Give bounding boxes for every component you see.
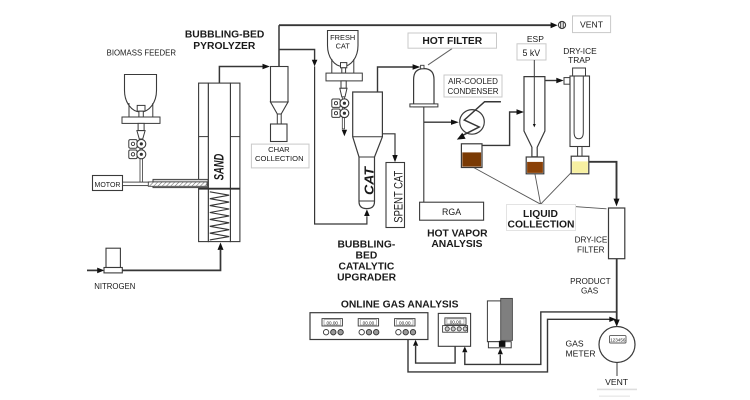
wire ESP outlet to dry-ice trap bbox=[545, 80, 557, 82]
fresh cat feed arrow bbox=[342, 130, 347, 137]
wire cyclone riser bbox=[278, 25, 280, 66]
gas analyzer unit 2 bbox=[438, 313, 470, 346]
wire product gas filter to gas meter bbox=[616, 259, 618, 320]
spent cat box bbox=[386, 163, 405, 228]
svg-text:PYROLYZER: PYROLYZER bbox=[193, 41, 256, 52]
wire analyzer1 return to gas meter bbox=[408, 319, 610, 372]
nitrogen cylinder bbox=[106, 248, 120, 267]
svg-text:BED: BED bbox=[356, 250, 378, 261]
label box VENT (top) bbox=[573, 16, 611, 33]
gas meter vent line bbox=[616, 363, 618, 377]
label box CHAR COLLECTION bbox=[251, 144, 309, 168]
svg-text:ANALYSIS: ANALYSIS bbox=[431, 239, 482, 250]
pyrolyzer jacket right wall bbox=[230, 83, 240, 242]
fresh cat stem bonnet bbox=[341, 63, 347, 68]
pyrolyzer jacket left wall bbox=[199, 83, 209, 242]
wire product gas branch to analyzer loop bbox=[465, 312, 617, 365]
svg-text:HOT VAPOR: HOT VAPOR bbox=[427, 228, 488, 239]
svg-text:5 kV: 5 kV bbox=[522, 48, 540, 58]
svg-text:ONLINE GAS ANALYSIS: ONLINE GAS ANALYSIS bbox=[341, 300, 459, 311]
gas chromatograph bbox=[487, 301, 502, 342]
svg-text:00.00: 00.00 bbox=[326, 320, 338, 325]
svg-text:VENT: VENT bbox=[580, 20, 604, 30]
fresh cat valve pair 1 bbox=[332, 99, 340, 107]
svg-text:VENT: VENT bbox=[605, 377, 629, 387]
cyclone separator bbox=[271, 67, 289, 103]
trap collection bottle bbox=[571, 156, 589, 174]
label box 5 kV bbox=[517, 44, 546, 60]
wire nitrogen inlet bbox=[87, 269, 98, 271]
svg-text:00.00: 00.00 bbox=[399, 320, 411, 325]
pyrolyzer inner column bbox=[208, 83, 230, 242]
label box AIR-COOLED CONDENSER bbox=[444, 75, 502, 97]
motor M1 bbox=[93, 176, 123, 191]
gas meter bbox=[599, 327, 635, 363]
dry-ice trap stem bbox=[577, 147, 579, 157]
biomass feeder stem bbox=[140, 139, 142, 184]
dry-ice trap neck bbox=[573, 68, 586, 76]
svg-text:CAT: CAT bbox=[363, 166, 377, 195]
svg-text:ESP: ESP bbox=[527, 34, 544, 44]
gas analyzer unit 1 bbox=[310, 313, 428, 340]
svg-text:HOT FILTER: HOT FILTER bbox=[422, 36, 482, 47]
fresh cat stem bbox=[342, 97, 344, 129]
biomass feeder crossbar bbox=[122, 117, 160, 123]
fresh cat taper bbox=[340, 88, 347, 97]
pyrolyzer flange lines bbox=[199, 136, 209, 138]
svg-text:COLLECTION: COLLECTION bbox=[255, 154, 304, 163]
wire trap bottle to dry-ice filter bbox=[589, 162, 617, 199]
label box HOT FILTER bbox=[408, 33, 497, 48]
svg-text:123456: 123456 bbox=[610, 337, 626, 342]
wire nitrogen to pyrolyzer bottom bbox=[122, 250, 220, 270]
svg-text:CATALYTIC: CATALYTIC bbox=[338, 261, 394, 272]
biomass feeder hopper bbox=[125, 75, 157, 113]
fresh cat support legs bbox=[331, 59, 333, 73]
wire analyzer2 to analyzer1 bbox=[416, 346, 456, 363]
char collection pot bbox=[271, 124, 288, 142]
wire top vent line bbox=[279, 24, 551, 26]
hot filter vessel bbox=[414, 69, 434, 107]
svg-text:PRODUCT: PRODUCT bbox=[570, 277, 610, 286]
biomass feeder stem bonnet bbox=[137, 105, 145, 111]
svg-text:BUBBLING-: BUBBLING- bbox=[338, 239, 396, 250]
RGA box bbox=[420, 202, 484, 220]
wire upgrader to spent cat box bbox=[382, 134, 395, 155]
svg-text:CONDENSER: CONDENSER bbox=[447, 87, 498, 96]
svg-text:CAT: CAT bbox=[336, 42, 351, 51]
wire vapor down-across-up into upgrader bottom bbox=[315, 66, 367, 224]
ESP collection bottle bbox=[526, 157, 544, 174]
wire hot filter branch to condenser bbox=[424, 121, 451, 123]
svg-text:BUBBLING-BED: BUBBLING-BED bbox=[185, 30, 265, 41]
svg-text:METER: METER bbox=[566, 349, 596, 359]
wire pyrolyzer top to cyclone inlet bbox=[219, 67, 262, 84]
svg-text:SAND: SAND bbox=[211, 154, 227, 181]
wire condenser bottle to ESP inlet bbox=[482, 112, 517, 145]
svg-text:00.00: 00.00 bbox=[363, 320, 375, 325]
biomass feeder support legs bbox=[128, 103, 130, 117]
svg-text:TRAP: TRAP bbox=[568, 55, 591, 65]
pyrolyzer heater coil bbox=[210, 192, 229, 240]
ESP electrode bbox=[533, 60, 535, 124]
catalytic upgrader vessel bbox=[353, 92, 383, 209]
leader line hot filter label bbox=[428, 49, 452, 65]
biomass valve pair 1 bbox=[129, 140, 137, 149]
svg-text:DRY-ICE: DRY-ICE bbox=[575, 235, 608, 244]
wire riser branch to upgrader feed bbox=[279, 50, 315, 61]
biomass feeder coupling bbox=[138, 123, 144, 130]
label box LIQUID COLLECTION bbox=[507, 205, 576, 231]
dry-ice trap vessel bbox=[570, 76, 590, 147]
motor shaft bbox=[123, 182, 154, 186]
svg-text:GAS: GAS bbox=[581, 286, 599, 295]
fresh cat hopper bbox=[328, 31, 359, 67]
screw feeder auger bbox=[153, 179, 208, 187]
svg-text:UPGRADER: UPGRADER bbox=[337, 273, 396, 284]
biomass valve pair 2 bbox=[129, 150, 137, 159]
dry-ice filter bbox=[609, 208, 625, 259]
svg-text:BIOMASS FEEDER: BIOMASS FEEDER bbox=[107, 49, 177, 58]
svg-text:GAS: GAS bbox=[566, 338, 584, 348]
pyrolyzer bed line bbox=[199, 188, 240, 190]
svg-text:COLLECTION: COLLECTION bbox=[508, 219, 575, 230]
condenser collection bottle bbox=[461, 144, 482, 168]
svg-text:RGA: RGA bbox=[442, 207, 461, 217]
leader lines liquid collection bbox=[473, 167, 541, 204]
svg-text:MOTOR: MOTOR bbox=[95, 182, 121, 189]
nitrogen base bbox=[104, 268, 122, 273]
dry-ice trap U-tube bbox=[574, 76, 583, 139]
wire hot filter down to RGA bbox=[423, 107, 425, 203]
ESP vessel bbox=[524, 77, 545, 157]
air-cooled condenser bbox=[460, 110, 485, 135]
wire branch up to GC bbox=[499, 355, 501, 365]
svg-text:AIR-COOLED: AIR-COOLED bbox=[448, 77, 498, 86]
svg-text:FILTER: FILTER bbox=[577, 245, 605, 254]
biomass feeder taper bbox=[137, 131, 145, 139]
svg-text:CHAR: CHAR bbox=[268, 145, 290, 154]
fresh cat valve pair 2 bbox=[332, 109, 340, 117]
wire upgrader outlet to hot filter bbox=[378, 67, 414, 92]
fresh cat coupling bbox=[341, 81, 346, 88]
svg-text:NITROGEN: NITROGEN bbox=[94, 282, 135, 291]
svg-text:00.00: 00.00 bbox=[450, 320, 462, 325]
fresh cat crossbar bbox=[326, 73, 362, 81]
svg-text:SPENT CAT: SPENT CAT bbox=[392, 170, 406, 223]
vent line valve symbol bbox=[558, 21, 565, 28]
